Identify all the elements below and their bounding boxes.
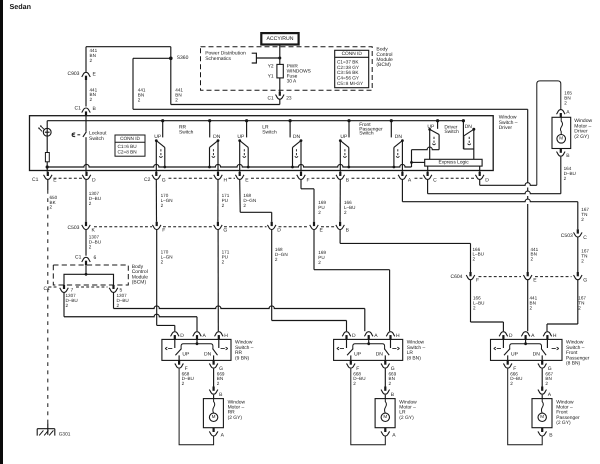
svg-text:Switch: Switch: [89, 136, 104, 142]
svg-text:H: H: [224, 177, 228, 183]
svg-text:C5=8 MI-GY: C5=8 MI-GY: [337, 81, 364, 86]
svg-text:(2 GY): (2 GY): [228, 415, 243, 421]
svg-text:(2 GY): (2 GY): [399, 415, 414, 421]
svg-text:F: F: [476, 278, 479, 284]
svg-text:D: D: [92, 177, 96, 183]
svg-text:2: 2: [581, 258, 584, 263]
svg-text:Passenger: Passenger: [556, 415, 580, 421]
svg-text:D: D: [509, 333, 513, 339]
svg-text:Window: Window: [235, 340, 253, 346]
svg-text:C: C: [583, 235, 587, 241]
svg-text:C4=56 GY: C4=56 GY: [337, 76, 360, 81]
svg-text:2: 2: [318, 260, 321, 265]
svg-text:2: 2: [89, 201, 92, 206]
svg-text:D: D: [277, 228, 281, 234]
svg-text:C1: C1: [75, 106, 82, 112]
svg-text:Motor –: Motor –: [228, 405, 245, 411]
svg-text:6: 6: [94, 255, 97, 261]
svg-text:2: 2: [90, 58, 93, 63]
svg-text:Express Logic: Express Logic: [439, 159, 470, 165]
svg-text:Window: Window: [566, 340, 584, 346]
svg-text:2: 2: [89, 244, 92, 249]
svg-text:Switch: Switch: [262, 129, 277, 135]
svg-text:2: 2: [344, 210, 347, 215]
svg-text:2: 2: [175, 98, 178, 103]
svg-text:C1: C1: [268, 96, 274, 102]
svg-text:G: G: [583, 278, 587, 284]
svg-text:2: 2: [66, 303, 69, 308]
svg-text:F: F: [307, 177, 310, 183]
svg-text:C1: C1: [75, 255, 82, 261]
svg-text:LR: LR: [399, 410, 406, 416]
svg-text:2: 2: [243, 203, 246, 208]
svg-text:(8 BN): (8 BN): [566, 361, 581, 367]
svg-text:2: 2: [531, 257, 534, 262]
svg-text:2: 2: [182, 381, 185, 386]
svg-text:2: 2: [530, 305, 533, 310]
svg-text:2: 2: [222, 259, 225, 264]
svg-text:ACCY/RUN: ACCY/RUN: [266, 36, 293, 42]
svg-text:DN: DN: [213, 134, 221, 140]
svg-text:2: 2: [545, 381, 548, 386]
svg-text:Schematics: Schematics: [205, 56, 231, 62]
svg-text:DN: DN: [376, 351, 384, 357]
svg-text:2: 2: [564, 176, 567, 181]
svg-text:C903: C903: [68, 71, 80, 77]
svg-text:G301: G301: [59, 432, 71, 438]
svg-text:C503: C503: [68, 225, 80, 231]
svg-text:2: 2: [161, 259, 164, 264]
svg-text:C2: C2: [144, 177, 151, 183]
svg-text:(2 GY): (2 GY): [556, 420, 571, 426]
svg-text:30 A: 30 A: [287, 79, 297, 85]
svg-text:(BCM): (BCM): [376, 62, 391, 68]
svg-text:S360: S360: [177, 55, 189, 61]
svg-text:Driver: Driver: [499, 125, 513, 131]
svg-text:Motor –: Motor –: [556, 405, 573, 411]
svg-text:Front: Front: [556, 410, 568, 416]
svg-text:Motor –: Motor –: [399, 405, 416, 411]
svg-text:CONN ID: CONN ID: [120, 136, 140, 141]
svg-text:DN: DN: [395, 134, 403, 140]
svg-text:H: H: [396, 333, 400, 339]
svg-text:Window: Window: [399, 399, 417, 405]
svg-text:C1: C1: [32, 177, 39, 183]
svg-text:M: M: [212, 414, 216, 419]
svg-text:M: M: [383, 414, 387, 419]
svg-text:RR: RR: [235, 350, 243, 356]
svg-text:H: H: [224, 333, 228, 339]
svg-text:2: 2: [389, 381, 392, 386]
svg-text:Window: Window: [407, 340, 425, 346]
svg-text:C: C: [433, 177, 437, 183]
svg-text:D: D: [352, 333, 356, 339]
svg-text:Window: Window: [556, 399, 574, 405]
svg-text:UP: UP: [237, 134, 245, 140]
svg-text:C604: C604: [451, 274, 463, 280]
svg-text:DN: DN: [293, 134, 301, 140]
svg-text:C503: C503: [561, 233, 573, 239]
svg-text:23: 23: [286, 96, 292, 102]
svg-text:C3=56 BK: C3=56 BK: [337, 70, 359, 75]
svg-text:(9 BN): (9 BN): [235, 355, 250, 361]
svg-text:2: 2: [117, 303, 120, 308]
svg-text:UP: UP: [182, 351, 190, 357]
svg-text:C1=6 BU: C1=6 BU: [118, 144, 138, 149]
svg-text:H: H: [553, 333, 557, 339]
svg-text:2: 2: [217, 381, 220, 386]
svg-text:UP: UP: [511, 351, 519, 357]
svg-text:2: 2: [510, 381, 513, 386]
svg-text:Switch: Switch: [179, 129, 194, 135]
svg-text:2: 2: [473, 305, 476, 310]
svg-text:(BCM): (BCM): [132, 280, 147, 286]
svg-text:DN: DN: [204, 351, 212, 357]
svg-text:2: 2: [138, 98, 141, 103]
svg-text:2: 2: [161, 203, 164, 208]
svg-text:G: G: [162, 177, 166, 183]
svg-text:2: 2: [90, 97, 93, 102]
svg-text:2: 2: [50, 205, 53, 210]
svg-text:G: G: [223, 228, 227, 234]
svg-text:UP: UP: [154, 134, 162, 140]
svg-text:Switch: Switch: [444, 129, 459, 135]
svg-text:D: D: [485, 177, 489, 183]
svg-text:C1=37 BK: C1=37 BK: [337, 60, 359, 65]
svg-text:D: D: [180, 333, 184, 339]
svg-text:Switch –: Switch –: [566, 345, 585, 351]
svg-text:UP: UP: [354, 351, 362, 357]
svg-text:2: 2: [353, 381, 356, 386]
svg-text:C2=8 BN: C2=8 BN: [118, 149, 137, 154]
svg-text:2: 2: [564, 100, 567, 105]
svg-text:C2=38 GY: C2=38 GY: [337, 65, 360, 70]
svg-text:Y1: Y1: [268, 73, 274, 79]
svg-text:2: 2: [581, 217, 584, 222]
svg-text:Switch: Switch: [359, 131, 374, 137]
svg-text:Passenger: Passenger: [566, 355, 590, 361]
svg-text:LR: LR: [407, 350, 414, 356]
svg-text:F: F: [162, 228, 165, 234]
svg-text:2: 2: [318, 210, 321, 215]
svg-text:2: 2: [473, 257, 476, 262]
svg-text:Y2: Y2: [268, 64, 274, 70]
svg-text:Switch –: Switch –: [235, 345, 254, 351]
svg-text:UP: UP: [340, 134, 348, 140]
svg-text:DN: DN: [465, 124, 473, 130]
svg-text:2: 2: [222, 203, 225, 208]
svg-text:CONN ID: CONN ID: [342, 51, 363, 57]
svg-text:2: 2: [275, 257, 278, 262]
svg-text:Switch –: Switch –: [407, 345, 426, 351]
svg-text:Sedan: Sedan: [10, 2, 32, 11]
svg-text:2: 2: [578, 305, 581, 310]
svg-text:RR: RR: [228, 410, 236, 416]
svg-text:M: M: [559, 135, 563, 140]
svg-text:Window: Window: [228, 399, 246, 405]
svg-text:Front: Front: [566, 350, 578, 356]
svg-text:DN: DN: [533, 351, 541, 357]
svg-text:M: M: [540, 414, 544, 419]
svg-text:(8 BN): (8 BN): [407, 355, 422, 361]
svg-text:(2 GY): (2 GY): [574, 134, 589, 140]
